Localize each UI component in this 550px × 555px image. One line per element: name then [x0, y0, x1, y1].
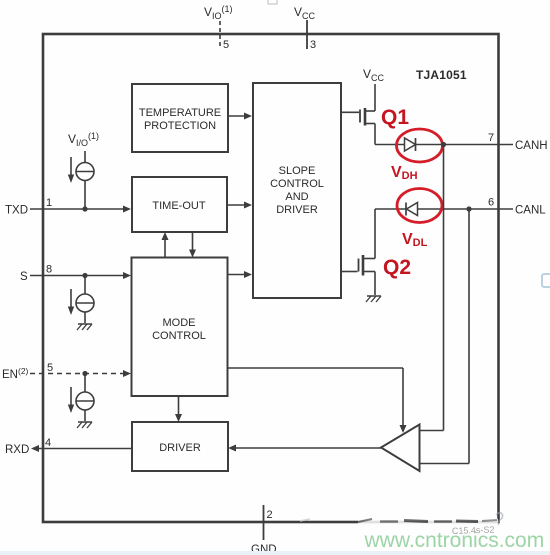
svg-text:5: 5 — [223, 39, 229, 51]
wire receiver input from CANL sense — [420, 209, 470, 464]
current source I3 (EN pull) — [76, 374, 94, 422]
arrow for I2 — [68, 289, 74, 315]
wire MODE CONTROL to SLOPE with arrow — [228, 271, 253, 278]
svg-text:7: 7 — [488, 132, 494, 144]
svg-text:MODE: MODE — [163, 317, 196, 329]
current source I2 (S pull) — [76, 276, 94, 324]
wire EN dashed input — [30, 370, 131, 377]
svg-text:CONTROL: CONTROL — [152, 330, 206, 342]
diode VDH on CANH — [375, 138, 444, 151]
svg-text:CANL: CANL — [515, 205, 546, 217]
IC outline frame — [43, 34, 499, 522]
svg-text:TJA1051: TJA1051 — [416, 68, 467, 82]
svg-text:SLOPE: SLOPE — [279, 165, 316, 177]
svg-text:TIME-OUT: TIME-OUT — [152, 200, 205, 212]
wire CANL to pin 6 — [469, 208, 513, 210]
block MODE CONTROL — [132, 258, 228, 397]
current source I1 (VIO pull) — [76, 151, 94, 209]
junction CANH node — [441, 142, 446, 147]
arrow for I1 — [68, 157, 74, 183]
block SLOPE CONTROL AND DRIVER — [253, 83, 341, 298]
svg-text:Q2: Q2 — [383, 256, 411, 279]
svg-text:DRIVER: DRIVER — [159, 442, 201, 454]
watermark artifact dashes on bottom edge — [300, 519, 498, 526]
wire receiver output to DRIVER with arrow — [228, 445, 381, 452]
svg-text:RXD: RXD — [5, 444, 29, 456]
wire TIME-OUT to MODE (down arrow) — [189, 232, 196, 258]
page bottom tint strip — [0, 551, 550, 555]
watermark artifact squiggle near corner — [496, 513, 503, 525]
svg-text:DRIVER: DRIVER — [276, 204, 318, 216]
svg-text:Q1: Q1 — [381, 106, 409, 129]
svg-text:TXD: TXD — [5, 205, 28, 217]
svg-text:4: 4 — [45, 437, 51, 449]
watermark artifact blue square right edge — [542, 274, 550, 287]
svg-text:TEMPERATURE: TEMPERATURE — [139, 107, 221, 119]
red ellipse around VDH — [397, 129, 443, 162]
wire MODE CONTROL to receiver enable — [228, 368, 407, 433]
wire CANH to pin 7 — [444, 144, 514, 146]
svg-text:S: S — [20, 271, 28, 283]
wire TXD input — [30, 206, 131, 213]
wire TEMP to SLOPE with arrow — [228, 113, 252, 120]
arrow for I3 — [68, 387, 74, 413]
svg-text:www.cntronics.com: www.cntronics.com — [364, 529, 545, 552]
svg-text:CANH: CANH — [515, 140, 548, 152]
block DRIVER — [132, 422, 228, 471]
wire MODE to DRIVER (down arrow) — [175, 396, 182, 422]
transistor Q2 (low side NMOS) — [342, 209, 375, 295]
junction TXD node — [82, 206, 87, 211]
junction S node — [82, 273, 87, 278]
junction EN node — [82, 371, 87, 376]
block TIME-OUT — [132, 177, 227, 232]
svg-text:5: 5 — [47, 362, 53, 374]
transistor Q1 (high side PMOS) — [342, 84, 375, 145]
svg-text:CONTROL: CONTROL — [270, 178, 324, 190]
ground below I3 — [77, 422, 92, 428]
block TEMPERATURE PROTECTION — [132, 84, 228, 152]
svg-text:3: 3 — [310, 39, 316, 51]
op-amp receiver comparator — [381, 425, 420, 472]
watermark artifact top center — [268, 0, 277, 4]
pin 5 VIO dashed stub — [219, 21, 221, 47]
red ellipse around VDL — [397, 189, 442, 223]
wire TIME-OUT to SLOPE with arrow — [227, 202, 252, 209]
diode VDL on CANL — [375, 203, 469, 216]
ground below I2 — [77, 324, 92, 330]
pin 2 GND stub — [263, 505, 265, 540]
pin 3 VCC stub — [306, 20, 308, 49]
svg-text:8: 8 — [46, 264, 52, 276]
wire MODE to TIME-OUT (up arrow) — [162, 232, 169, 258]
junction CANL node — [466, 206, 471, 211]
wire receiver input from CANH sense — [420, 145, 444, 431]
svg-text:2: 2 — [267, 509, 273, 521]
wire S input — [30, 272, 131, 279]
svg-text:6: 6 — [488, 197, 494, 209]
svg-text:AND: AND — [285, 191, 308, 203]
ground below Q2 — [366, 296, 381, 302]
svg-text:PROTECTION: PROTECTION — [144, 120, 216, 132]
wire RXD output — [31, 445, 132, 452]
svg-text:1: 1 — [46, 197, 52, 209]
